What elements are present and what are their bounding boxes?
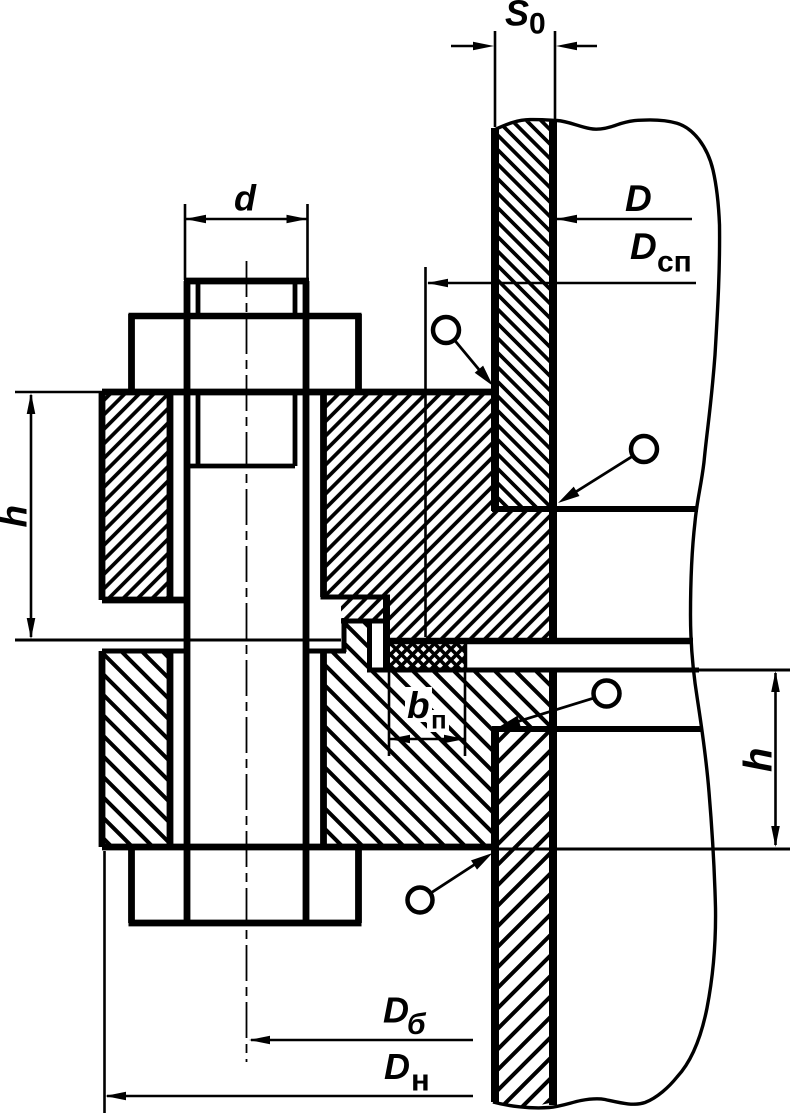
svg-text:н: н	[411, 1063, 430, 1098]
svg-text:сп: сп	[657, 246, 692, 279]
svg-text:D: D	[383, 990, 409, 1031]
svg-text:h: h	[737, 748, 781, 772]
svg-text:D: D	[625, 178, 652, 219]
svg-text:S: S	[505, 0, 529, 34]
svg-text:b: b	[407, 685, 430, 726]
svg-text:п: п	[431, 705, 447, 735]
svg-text:D: D	[630, 226, 657, 267]
svg-text:h: h	[0, 505, 35, 528]
svg-text:D: D	[384, 1046, 410, 1087]
svg-text:0: 0	[529, 8, 546, 41]
svg-text:б: б	[407, 1008, 427, 1041]
svg-text:d: d	[234, 178, 257, 219]
